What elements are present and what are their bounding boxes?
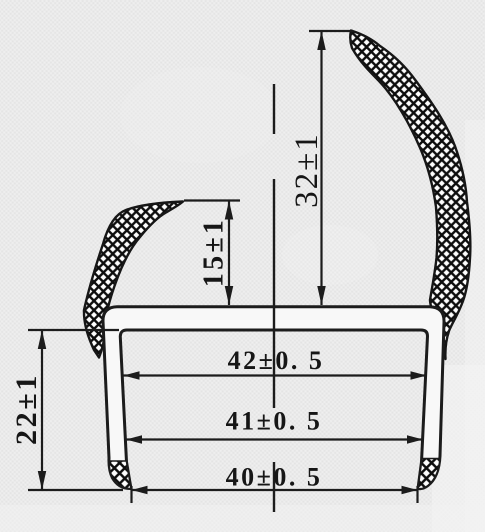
svg-text:42±0. 5: 42±0. 5	[228, 346, 325, 375]
dimension 15±1 (vertical, left lip tip to channel top)	[184, 201, 240, 306]
dimension 41±0.5 (horizontal, inner width at middle)	[126, 407, 423, 444]
svg-text:41±0. 5: 41±0. 5	[226, 407, 323, 436]
vertical centerline	[273, 84, 275, 512]
dimension 40±0.5 (horizontal, width at leg tips)	[132, 463, 418, 504]
svg-text:32±1: 32±1	[289, 132, 325, 208]
left leg rubber tip (cross-hatched)	[109, 461, 131, 489]
svg-text:40±0. 5: 40±0. 5	[226, 463, 323, 492]
right rubber sealing lip (cross-hatched crescent)	[350, 31, 470, 360]
dimension 42±0.5 (horizontal, inner width at top)	[124, 346, 427, 380]
svg-text:15±1: 15±1	[199, 217, 230, 287]
dimension 32±1 (vertical, lip tip to channel top)	[289, 31, 353, 305]
dimension 22±1 (vertical, channel inner depth)	[10, 330, 123, 490]
left rubber sealing lip (cross-hatched crescent)	[84, 202, 183, 358]
U-channel profile body	[103, 307, 444, 489]
svg-text:22±1: 22±1	[10, 373, 43, 445]
right leg rubber tip (cross-hatched)	[418, 459, 440, 489]
